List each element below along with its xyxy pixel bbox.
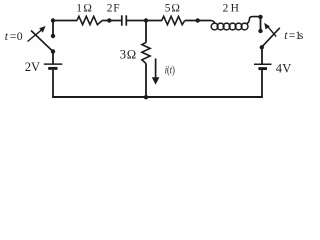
current arrow i(t) shaft	[155, 59, 157, 79]
resistor R1 1 ohm zigzag	[77, 16, 102, 24]
svg-text:=: =	[10, 29, 17, 43]
svg-text:Ω: Ω	[127, 48, 137, 62]
capacitor C1 2 F plates	[121, 15, 123, 25]
node D junction dot	[196, 18, 200, 22]
wire bottom-left riser to battery V1	[52, 70, 54, 97]
bottom rail wire	[52, 96, 263, 98]
node B junction dot	[107, 18, 111, 22]
svg-text:F: F	[113, 2, 119, 14]
battery V1 short plate	[48, 67, 57, 70]
battery V2 short plate	[258, 67, 267, 70]
switch S1 fixed stub wire	[52, 21, 54, 37]
svg-text:2: 2	[223, 3, 229, 15]
switch S1 arm blade	[31, 31, 53, 52]
current arrow i(t) head	[152, 77, 160, 85]
switch S2 motion arrow shaft	[267, 26, 276, 36]
svg-text:2: 2	[107, 2, 113, 14]
switch S2 motion arrowhead	[264, 23, 270, 30]
switch S1 pivot dot	[51, 49, 55, 53]
inductor L1 exit hook to top-right node	[247, 17, 260, 24]
svg-text:V: V	[282, 61, 291, 75]
svg-text:3: 3	[120, 48, 126, 62]
wire battery V2 to bottom rail	[261, 70, 263, 97]
switch S1 stub terminal dot	[51, 34, 55, 38]
node E top-right dot	[258, 15, 262, 19]
switch S2 arm blade	[262, 28, 280, 48]
svg-text:Ω: Ω	[83, 2, 92, 14]
wire battery V1 to switch S1 pivot	[52, 52, 54, 64]
wire top-left horizontal (node to R1)	[53, 20, 77, 22]
svg-text:t: t	[5, 29, 9, 43]
wire capacitor to node C	[126, 20, 162, 22]
switch S2 fixed stub wire	[260, 17, 262, 31]
node A top-left dot	[51, 18, 55, 22]
svg-text:5: 5	[165, 3, 171, 15]
node C junction dot	[144, 18, 148, 22]
svg-text:1: 1	[76, 2, 82, 14]
battery V1 long plate	[44, 63, 62, 65]
wire middle branch upper	[145, 21, 147, 43]
wire R1 to node B	[102, 20, 121, 22]
resistor R3 3 ohm vertical zigzag	[142, 43, 150, 64]
svg-text:t: t	[284, 28, 288, 42]
svg-text:0: 0	[17, 29, 23, 43]
inductor L1 coil loops	[211, 23, 248, 30]
svg-text:V: V	[31, 60, 40, 74]
svg-text:i(t): i(t)	[165, 63, 175, 76]
wire switch S2 to battery V2	[261, 47, 263, 63]
switch S1 motion arrowhead	[39, 26, 45, 33]
switch S1 motion arrow shaft	[28, 30, 43, 42]
switch S2 stub terminal dot	[258, 29, 262, 33]
svg-text:H: H	[231, 3, 239, 15]
battery V2 long plate	[254, 63, 272, 65]
inductor L1 2 H entry curve	[211, 21, 215, 24]
wire R2 to node D	[185, 20, 211, 22]
wire middle branch lower	[145, 64, 147, 98]
svg-text:Ω: Ω	[171, 3, 180, 15]
switch S2 pivot dot	[260, 45, 264, 49]
svg-text:s: s	[299, 30, 304, 42]
resistor R2 5 ohm zigzag	[162, 16, 185, 24]
node F bottom junction dot	[144, 95, 148, 99]
